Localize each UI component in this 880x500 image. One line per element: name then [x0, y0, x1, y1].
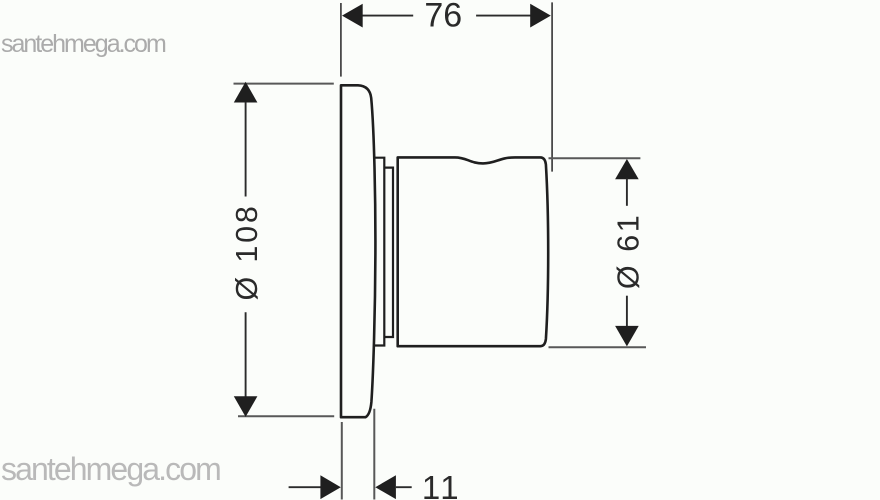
- dim 61 bottom extension line: [549, 346, 647, 348]
- dim 108 up arrow: [234, 82, 258, 103]
- dim 11 left lead line: [289, 486, 322, 488]
- dim 76 left arrow: [342, 4, 363, 28]
- dim 11 right extension line: [373, 409, 375, 500]
- dim 61 top extension line: [549, 157, 641, 159]
- dim 108 down arrow: [234, 396, 258, 417]
- dim 61 upper stem: [626, 179, 628, 206]
- dim 76 right arrow: [530, 4, 551, 28]
- dim 61 lower stem: [626, 296, 628, 327]
- dim 11 left arrow: [320, 475, 340, 499]
- escutcheon plate outline: [341, 85, 375, 417]
- dim 11 left extension line: [341, 422, 343, 500]
- svg-text:santehmega.com: santehmega.com: [1, 451, 220, 487]
- dim 108 lower stem: [245, 312, 247, 397]
- dim 61 up arrow: [615, 159, 639, 179]
- dim 11 right arrow: [375, 475, 396, 499]
- dim 76 line left segment: [361, 15, 413, 17]
- sleeve inner step: [384, 168, 393, 337]
- dim 76 line right segment: [476, 15, 531, 17]
- svg-text:76: 76: [424, 0, 462, 35]
- dim 76 left extension line: [340, 3, 342, 77]
- handle knob outline: [398, 157, 549, 346]
- svg-text:11: 11: [422, 469, 461, 500]
- dim 108 top extension line: [234, 83, 334, 85]
- dim 108 upper stem: [245, 102, 247, 197]
- svg-text:santehmega.com: santehmega.com: [1, 30, 166, 58]
- svg-text:Ø 61: Ø 61: [612, 213, 646, 290]
- dim 76 right extension line: [551, 2, 553, 171]
- sleeve outer step: [374, 158, 385, 346]
- dim 108 bottom extension line: [238, 415, 334, 417]
- dim 61 down arrow: [615, 326, 639, 347]
- dim 11 right lead line: [396, 486, 412, 488]
- svg-text:Ø 108: Ø 108: [230, 203, 264, 300]
